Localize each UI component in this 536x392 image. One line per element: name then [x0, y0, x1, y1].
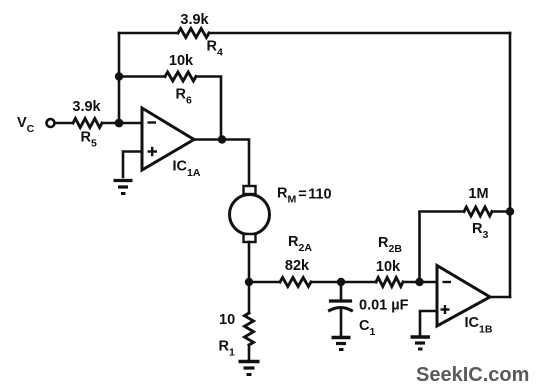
ground (IC1B +)	[411, 337, 431, 349]
node dot (motor bottom / R1)	[245, 278, 253, 286]
motor RM bottom terminal	[244, 234, 256, 242]
resistor R6	[165, 72, 196, 81]
wire top rail left segment	[119, 32, 178, 35]
node dot (C1)	[337, 278, 345, 286]
node dot (IC1A output)	[218, 135, 226, 143]
resistor R1	[248, 282, 251, 313]
resistor R5	[73, 119, 102, 128]
capacitor C1	[340, 282, 343, 300]
wire IC1B output	[490, 296, 510, 299]
svg-text:SeekIC.com: SeekIC.com	[416, 364, 529, 386]
op-amp IC1A	[142, 108, 194, 170]
node dot (feedback/R6)	[115, 72, 123, 80]
wire bottom rail seg2	[311, 281, 376, 284]
motor RM body	[230, 195, 270, 235]
wire R3 to right rail	[492, 210, 510, 213]
wire right vertical rail	[509, 33, 512, 297]
svg-text:3.9k: 3.9k	[180, 12, 209, 28]
resistor R4	[178, 29, 209, 38]
ground (R1)	[239, 362, 260, 375]
svg-text:10k: 10k	[169, 53, 194, 69]
svg-text:10k: 10k	[376, 259, 401, 275]
svg-text:0.01 µF: 0.01 µF	[359, 298, 409, 314]
wire R5 to inverting input	[102, 122, 142, 125]
terminal Vc	[47, 119, 55, 127]
wire left vertical feedback	[118, 33, 121, 123]
wire Vc input	[55, 122, 73, 125]
svg-text:82k: 82k	[285, 258, 310, 274]
op-amp IC1B	[437, 266, 490, 327]
resistor R2B	[376, 278, 403, 287]
svg-text:10: 10	[219, 312, 235, 328]
node dot (R5/inverting input)	[115, 119, 124, 128]
op-amp IC1B + symbol	[441, 305, 450, 314]
ground (C1)	[332, 338, 351, 350]
wire bottom rail seg1	[249, 281, 280, 284]
node dot (R3/right rail)	[506, 207, 514, 215]
wire R3 branch vertical	[420, 212, 465, 283]
wire R6 to output node	[196, 77, 221, 141]
wire top rail right segment	[209, 32, 510, 35]
resistor R3	[464, 207, 492, 216]
wire IC1A output	[194, 140, 249, 187]
wire IC1A + input stub	[123, 152, 142, 178]
wire IC1B + input stub	[420, 311, 437, 336]
op-amp IC1A + symbol	[148, 147, 158, 156]
op-amp IC1A - symbol	[148, 121, 157, 123]
wire bottom rail seg3	[403, 281, 437, 284]
motor RM top terminal	[244, 186, 256, 194]
wire motor to bottom node	[248, 242, 251, 282]
resistor R2A	[280, 278, 311, 287]
svg-text:1M: 1M	[468, 186, 488, 202]
op-amp IC1B - symbol	[443, 281, 452, 283]
wire R6 rail left	[119, 75, 165, 78]
ground (IC1A +)	[114, 181, 133, 194]
svg-text:3.9k: 3.9k	[72, 99, 101, 115]
node dot (IC1B inverting)	[415, 278, 423, 286]
